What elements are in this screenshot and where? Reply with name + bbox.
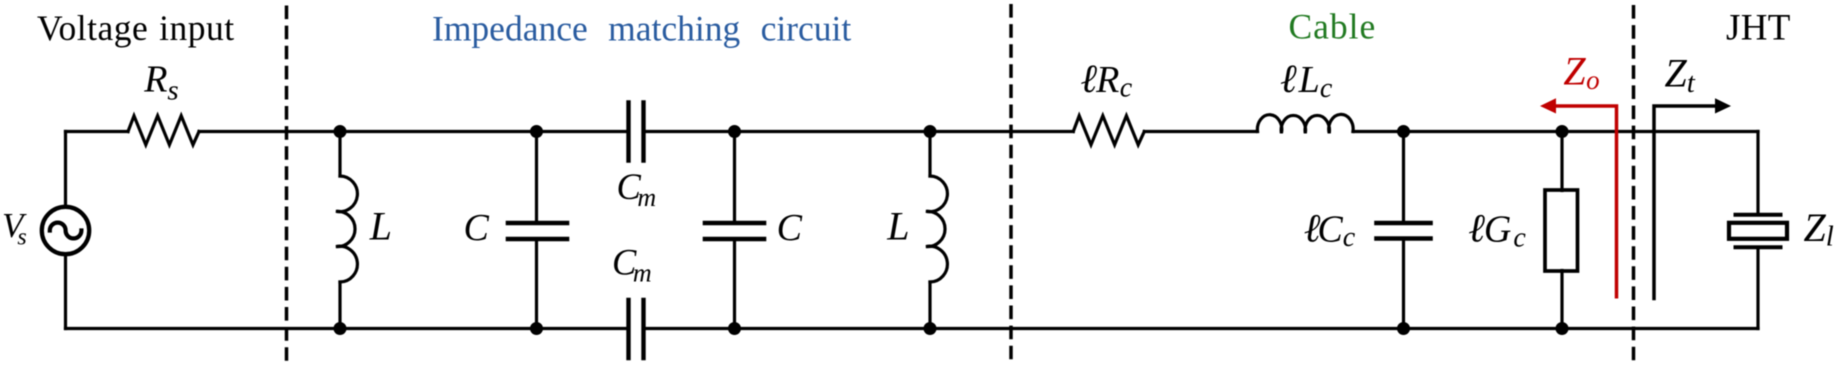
- svg-text:JHT: JHT: [1726, 8, 1791, 49]
- svg-text:Impedance matching circuit: Impedance matching circuit: [432, 9, 851, 49]
- svg-text:L: L: [369, 204, 392, 249]
- svg-text:Voltage input: Voltage input: [37, 8, 235, 48]
- svg-text:C: C: [777, 207, 803, 249]
- svg-text:Vs: Vs: [2, 206, 27, 251]
- svg-text:L: L: [886, 204, 909, 249]
- svg-text:C: C: [464, 207, 490, 249]
- svg-text:Cable: Cable: [1289, 6, 1377, 46]
